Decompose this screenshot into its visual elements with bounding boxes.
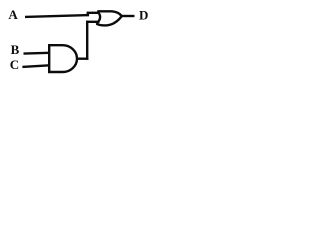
svg-text:B: B <box>11 42 20 57</box>
wire OR gate output to D <box>122 15 135 17</box>
svg-text:C: C <box>10 57 19 72</box>
wire from input A (horizontal run) <box>25 15 89 17</box>
svg-text:D: D <box>139 8 148 23</box>
wire from input B <box>24 52 50 55</box>
wire AND gate output segment <box>77 58 88 60</box>
OR gate U1 body (top edge, tip and bottom edge) <box>96 11 122 25</box>
wire into OR gate lower input <box>86 21 100 23</box>
wire into OR gate top input <box>87 12 100 14</box>
AND gate U2 body <box>49 45 77 72</box>
wire jog up at A branch <box>87 12 89 16</box>
wire vertical riser from AND output <box>86 21 88 60</box>
OR gate U1 concave input arc <box>96 11 100 23</box>
wire from input C <box>22 65 49 67</box>
svg-text:A: A <box>8 7 18 22</box>
